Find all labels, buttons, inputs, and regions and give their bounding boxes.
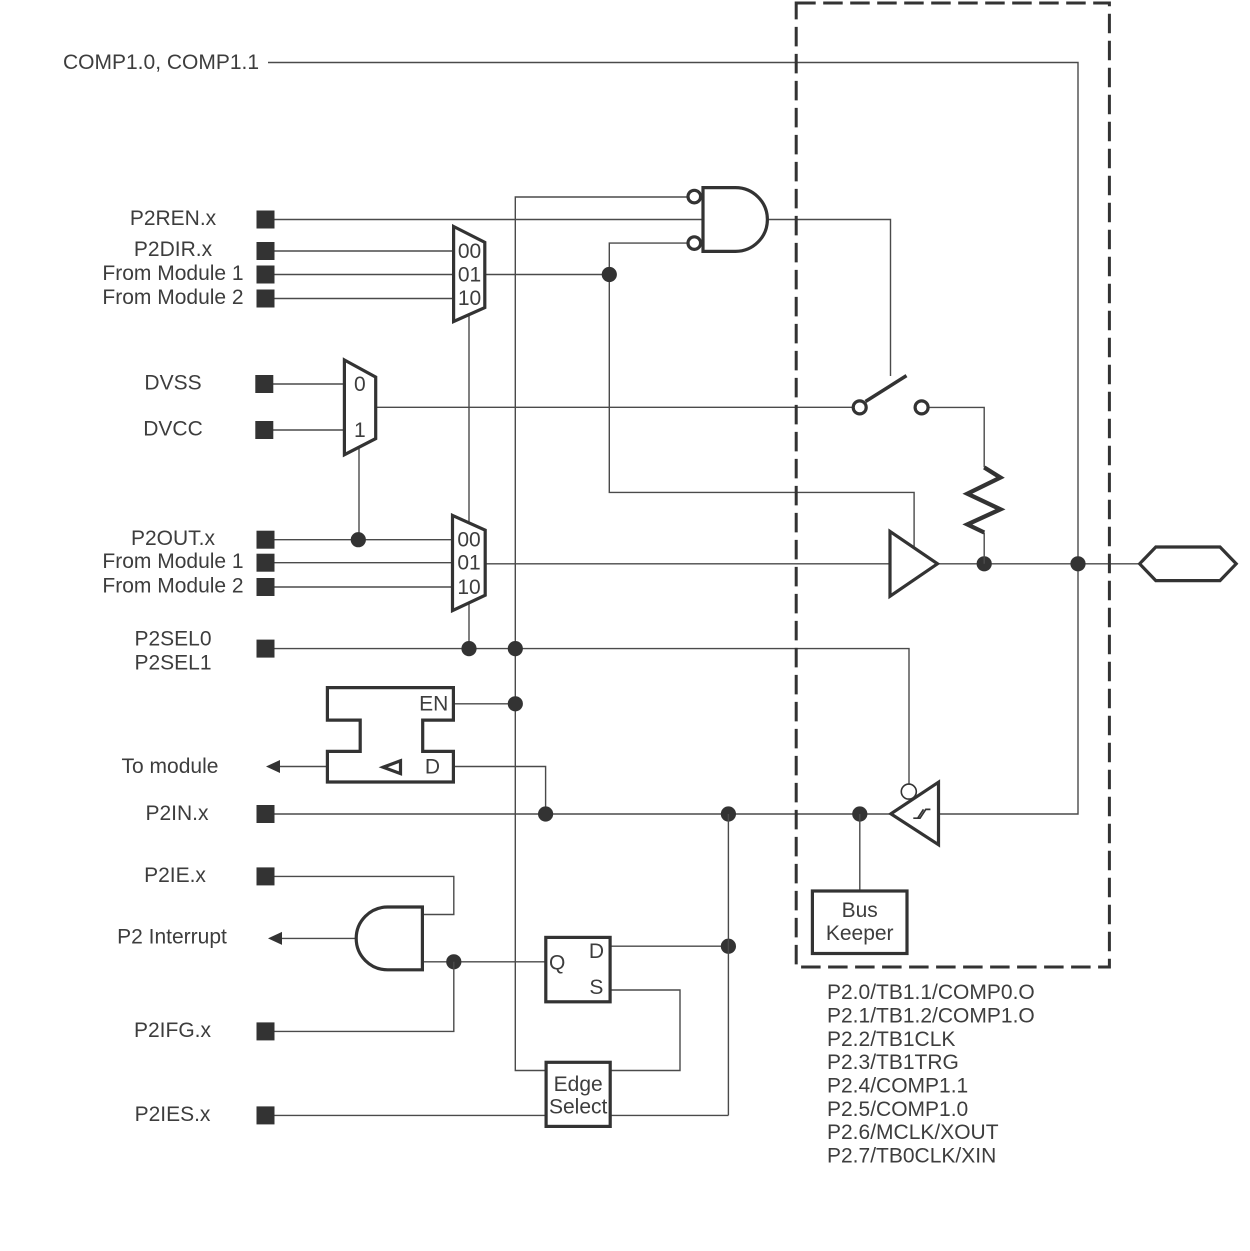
- switch S1 right contact: [915, 401, 928, 414]
- pad P2.x (hexagon): [1140, 547, 1237, 581]
- wire P2DIR.x input: [275, 250, 454, 252]
- wire P2 Interrupt arrow from AND gate: [281, 937, 358, 939]
- node junction dot D-latch/P2IN: [538, 806, 553, 821]
- svg-text:Edge: Edge: [554, 1073, 603, 1096]
- svg-text:D: D: [589, 940, 604, 963]
- wire vertical from P2IN down to P2IES line: [727, 814, 729, 1115]
- terminal square P2REN.x: [257, 211, 275, 229]
- svg-text:P2IES.x: P2IES.x: [135, 1103, 211, 1126]
- terminal square P2IES.x: [257, 1106, 275, 1124]
- bubble bottom input of U4: [688, 237, 701, 250]
- svg-text:DVCC: DVCC: [143, 418, 203, 441]
- latch U7 EN/D (I-beam shape): [327, 688, 453, 782]
- wire P2REN net: to NAND gate, output to switch lever: [275, 220, 891, 377]
- mux U2 DVSS/DVCC select (trapezoid): [344, 360, 375, 455]
- terminal square P2DIR.x: [257, 242, 275, 260]
- svg-text:P2 Interrupt: P2 Interrupt: [117, 926, 227, 949]
- wire flip-flop S to Edge Select: [610, 990, 680, 1071]
- clock triangle of U7: [383, 761, 400, 774]
- bubble enable of U6: [901, 784, 916, 799]
- wire AND gate input / Q output line: [423, 961, 546, 963]
- wire From Module 1 input (OUT mux): [275, 562, 453, 564]
- wire bus keeper connection: [859, 814, 861, 891]
- bus keeper U9: [812, 891, 907, 954]
- svg-text:01: 01: [457, 552, 480, 575]
- svg-text:00: 00: [457, 529, 480, 552]
- terminal square P2OUT.x: [257, 531, 275, 549]
- svg-text:P2OUT.x: P2OUT.x: [131, 527, 216, 550]
- svg-text:P2REN.x: P2REN.x: [130, 207, 217, 230]
- wire From Module 1 input (DIR mux): [275, 274, 454, 276]
- svg-text:1: 1: [354, 419, 366, 442]
- wire OUT mux output to buffer: [485, 563, 890, 565]
- wire COMP net: right then down to Schmitt input: [268, 63, 1078, 815]
- node junction dot P2SEL at x=515.3: [508, 641, 523, 656]
- wire DVSS input: [273, 383, 344, 385]
- node junction dot EN at x=515.3: [508, 696, 523, 711]
- wire From Module 2 input (DIR mux): [275, 298, 454, 300]
- wire mux select vertical through both muxes: [468, 315, 470, 649]
- resistor R1 pullup/pulldown: [967, 467, 1000, 532]
- node junction dot resistor/pad line: [977, 556, 992, 571]
- svg-text:Keeper: Keeper: [826, 922, 894, 945]
- node junction dot Q line: [446, 954, 461, 969]
- terminal square P2SEL: [257, 640, 275, 658]
- svg-text:DVSS: DVSS: [144, 372, 201, 395]
- terminal square DVCC: [255, 421, 273, 439]
- switch S1 lever: [866, 376, 907, 402]
- svg-text:P2.1/TB1.2/COMP1.O: P2.1/TB1.2/COMP1.O: [827, 1004, 1035, 1027]
- wire P2IFG.x up to Q line: [275, 962, 454, 1032]
- terminal square From Module 2 (DIR): [257, 290, 275, 308]
- svg-text:From Module 1: From Module 1: [102, 550, 243, 573]
- svg-text:S: S: [589, 976, 603, 999]
- svg-text:Bus: Bus: [842, 899, 878, 922]
- wire resistor bottom to pad line: [983, 533, 985, 564]
- terminal square From Module 2 (OUT): [257, 578, 275, 596]
- node junction dot COMP vertical/pad line: [1070, 556, 1085, 571]
- terminal square From Module 1 (DIR): [257, 266, 275, 284]
- wire flip-flop D input line: [610, 945, 728, 947]
- svg-text:10: 10: [458, 287, 481, 310]
- wire P2IN.x line: [275, 813, 891, 815]
- wire latch D output down to P2IN line: [453, 767, 545, 815]
- nand gate U4 (AND shape with input bubbles): [703, 188, 767, 252]
- terminal square P2IN.x: [257, 805, 275, 823]
- node junction dot P2IN at x=728.4: [721, 806, 736, 821]
- svg-text:P2IFG.x: P2IFG.x: [134, 1019, 212, 1042]
- node junction dot P2DIR mux output: [602, 267, 617, 282]
- svg-text:0: 0: [354, 373, 366, 396]
- node junction dot P2SEL at x=469: [461, 641, 476, 656]
- wire NAND bottom input / P2DIR mux output to buffer enable: [609, 243, 914, 547]
- wire EN of latch to vertical: [453, 703, 515, 705]
- svg-text:EN: EN: [419, 692, 448, 715]
- svg-text:Select: Select: [549, 1096, 608, 1119]
- edge select U11: [546, 1062, 610, 1126]
- terminal square From Module 1 (OUT): [257, 554, 275, 572]
- bubble top input of U4: [688, 190, 701, 203]
- wire DVCC input: [273, 429, 344, 431]
- mux U3 P2OUT select (trapezoid): [453, 515, 486, 610]
- svg-text:P2.4/COMP1.1: P2.4/COMP1.1: [827, 1074, 968, 1097]
- svg-text:P2DIR.x: P2DIR.x: [134, 238, 213, 261]
- buffer U5 output driver: [890, 531, 938, 596]
- svg-text:P2IE.x: P2IE.x: [144, 864, 206, 887]
- node junction dot D line: [721, 939, 736, 954]
- svg-text:P2SEL1: P2SEL1: [134, 652, 211, 675]
- svg-text:01: 01: [458, 263, 481, 286]
- hysteresis symbol of U6: [913, 809, 930, 818]
- svg-text:P2.2/TB1CLK: P2.2/TB1CLK: [827, 1028, 955, 1051]
- mux U1 P2DIR select (trapezoid): [454, 227, 485, 322]
- svg-text:00: 00: [458, 240, 481, 263]
- svg-text:P2.0/TB1.1/COMP0.O: P2.0/TB1.1/COMP0.O: [827, 981, 1035, 1004]
- wire DVSS/DVCC mux select from P2OUT line: [358, 447, 360, 540]
- switch S1 left contact: [853, 401, 866, 414]
- svg-text:P2IN.x: P2IN.x: [145, 802, 209, 825]
- svg-text:COMP1.0, COMP1.1: COMP1.0, COMP1.1: [63, 51, 259, 74]
- wire P2IES.x line through Edge Select: [275, 1114, 729, 1116]
- dashed boundary box: [796, 3, 1109, 967]
- wire switch to resistor top: [930, 407, 985, 467]
- svg-text:P2.6/MCLK/XOUT: P2.6/MCLK/XOUT: [827, 1121, 999, 1144]
- node junction dot on P2OUT line: [351, 532, 366, 547]
- terminal square DVSS: [255, 375, 273, 393]
- svg-text:D: D: [425, 756, 440, 779]
- svg-text:From Module 1: From Module 1: [102, 262, 243, 285]
- svg-text:P2.7/TB0CLK/XIN: P2.7/TB0CLK/XIN: [827, 1145, 996, 1168]
- svg-text:From Module 2: From Module 2: [102, 286, 243, 309]
- wire P2SEL net to Schmitt enable bubble: [275, 649, 910, 784]
- wire NAND top input net from long vertical x=515.3 down to Edge Select: [515, 197, 688, 1071]
- wire P2DIR mux output stub: [485, 274, 610, 276]
- node junction dot P2IN at bus keeper: [852, 806, 867, 821]
- wire pad output line: [938, 563, 1140, 565]
- wire P2IE.x to interrupt AND gate: [275, 876, 454, 914]
- terminal square P2IFG.x: [257, 1022, 275, 1040]
- svg-text:To module: To module: [122, 755, 219, 778]
- wire From Module 2 input (OUT mux): [275, 586, 453, 588]
- wire P2OUT.x input: [275, 539, 453, 541]
- and gate U8 interrupt (left pointing): [356, 907, 422, 970]
- svg-text:P2.3/TB1TRG: P2.3/TB1TRG: [827, 1051, 959, 1074]
- wire DVSS/DVCC mux output to switch: [376, 406, 852, 408]
- svg-text:10: 10: [457, 576, 480, 599]
- svg-text:From Module 2: From Module 2: [102, 575, 243, 598]
- terminal square P2IE.x: [257, 867, 275, 885]
- svg-text:P2SEL0: P2SEL0: [134, 628, 211, 651]
- schmitt trigger U6 input buffer: [891, 782, 939, 845]
- wire To module arrow: [279, 766, 327, 768]
- flip-flop U10 Q/D/S: [546, 937, 610, 1001]
- svg-text:Q: Q: [549, 952, 565, 975]
- svg-text:P2.5/COMP1.0: P2.5/COMP1.0: [827, 1098, 968, 1121]
